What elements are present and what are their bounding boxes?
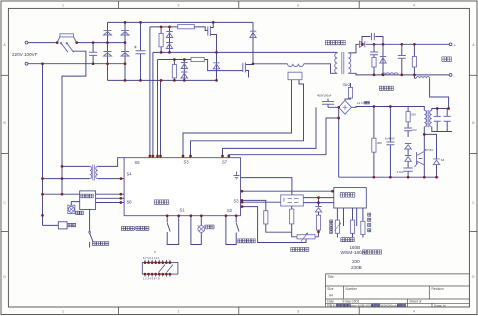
svg-text:B: B <box>4 121 6 125</box>
svg-text:S3: S3 <box>234 199 240 204</box>
svg-text:S6: S6 <box>135 160 141 165</box>
svg-text:3: 3 <box>297 3 299 7</box>
svg-text:S1: S1 <box>180 208 186 213</box>
svg-text:2: 2 <box>178 310 180 314</box>
svg-text:\wsm-160B+200B\: \wsm-160B+200B\ <box>350 304 373 308</box>
svg-text:472: 472 <box>412 128 417 132</box>
svg-text:1u400V: 1u400V <box>385 137 395 141</box>
svg-text:Number: Number <box>346 287 358 291</box>
svg-text:1: 1 <box>62 310 64 314</box>
svg-text:160B: 160B <box>350 245 361 250</box>
svg-text:KZ: KZ <box>441 158 445 162</box>
svg-text:WSM-160A/: WSM-160A/ <box>341 250 368 256</box>
svg-text:Drawn by: Drawn by <box>434 304 446 308</box>
svg-text:Title: Title <box>327 275 333 279</box>
svg-text:8 7 6 5 4 3 2 1: 8 7 6 5 4 3 2 1 <box>143 256 160 260</box>
svg-text:BT151: BT151 <box>425 148 434 152</box>
svg-text:4: 4 <box>413 310 415 314</box>
svg-text:S3: S3 <box>184 159 190 164</box>
svg-text:File: File <box>327 304 332 308</box>
svg-text:400V100uF: 400V100uF <box>317 93 332 97</box>
svg-text:S8: S8 <box>127 200 133 205</box>
svg-text:220V 100VF: 220V 100VF <box>12 52 38 57</box>
svg-text:230B: 230B <box>351 265 362 270</box>
svg-text:3.3uF: 3.3uF <box>397 170 404 174</box>
svg-text:S2: S2 <box>227 208 233 213</box>
svg-text:Revision: Revision <box>432 287 444 291</box>
svg-text:Size: Size <box>327 287 333 291</box>
svg-text:1 2 3 4 5 6 7 8: 1 2 3 4 5 6 7 8 <box>143 277 160 281</box>
svg-text:\WSM160a.ddb/: \WSM160a.ddb/ <box>380 304 400 308</box>
svg-text:2: 2 <box>178 3 180 7</box>
svg-text:1: 1 <box>62 3 64 7</box>
svg-text:200: 200 <box>352 259 360 264</box>
svg-text:L4.7u: L4.7u <box>357 101 364 105</box>
svg-text:20K: 20K <box>411 113 416 117</box>
svg-text:A4: A4 <box>329 294 333 298</box>
svg-text:4: 4 <box>413 3 415 7</box>
svg-text:3: 3 <box>297 310 299 314</box>
svg-text:S4: S4 <box>127 172 133 177</box>
svg-text:30K: 30K <box>377 141 382 145</box>
svg-text:S7: S7 <box>222 159 228 164</box>
svg-text:Sheet of: Sheet of <box>410 300 422 304</box>
svg-text:B: B <box>472 121 474 125</box>
